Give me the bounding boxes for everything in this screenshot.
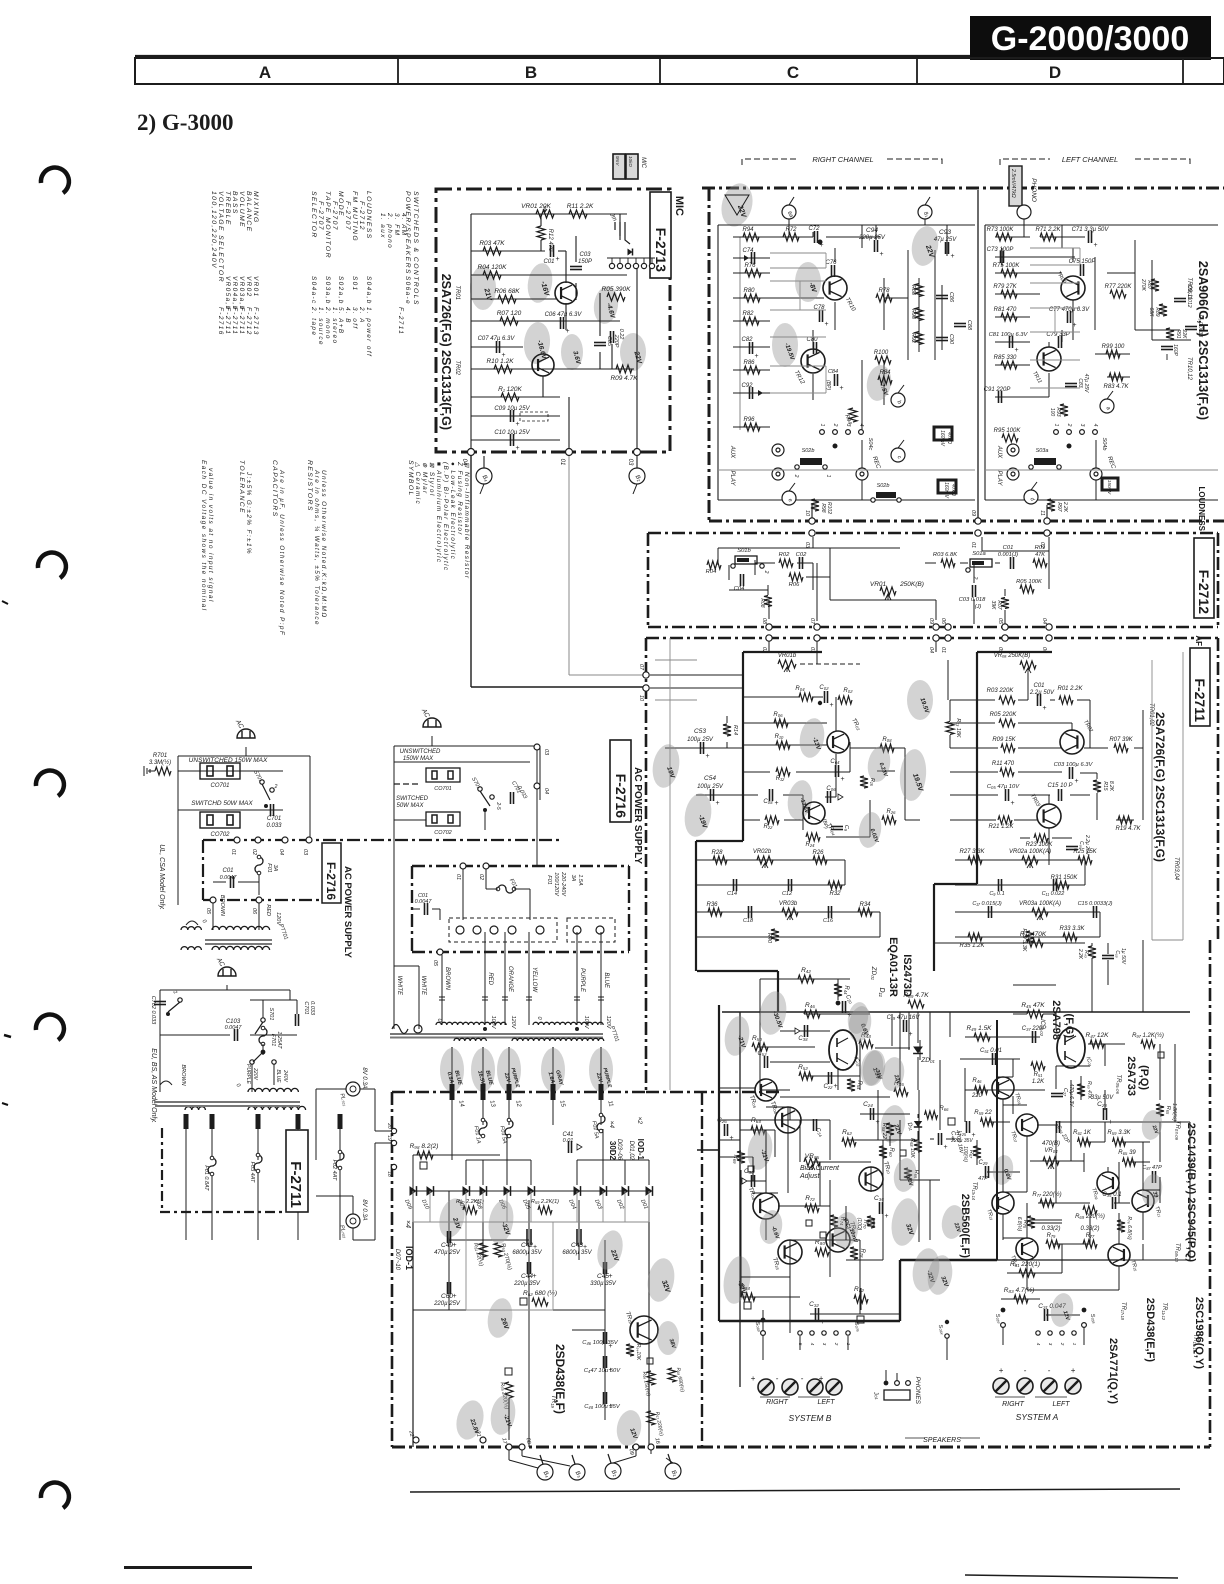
svg-text:0.001(J): 0.001(J) — [998, 552, 1018, 558]
capacitor C46 100u 35V — [603, 1332, 605, 1344]
svg-text:C₁₇ 0.015(J): C₁₇ 0.015(J) — [972, 901, 1002, 907]
capacitor C09 2.2u 25V vert — [1066, 846, 1078, 848]
capacitor C82 — [749, 342, 751, 354]
svg-text:CO702: CO702 — [434, 830, 451, 836]
svg-text:PHONO: PHONO — [1030, 178, 1037, 202]
resistor R07 120 — [500, 317, 518, 325]
TR02 emitter down — [542, 376, 544, 397]
svg-text:MIXING: MIXING — [252, 191, 259, 224]
resistor R97 R101 — [1047, 499, 1055, 511]
resistor R62 — [842, 1138, 856, 1146]
svg-text:R26: R26 — [812, 850, 824, 856]
svg-text:R₅₄: R₅₄ — [856, 1080, 862, 1090]
resistor R65b 39 — [1123, 1158, 1136, 1166]
resistor R07 39K loudness — [1001, 598, 1009, 609]
svg-text:R95 100K: R95 100K — [994, 428, 1022, 434]
capacitor C37 220P — [1032, 1031, 1034, 1043]
fuse F02 4AT EU — [336, 1152, 344, 1168]
switched row wire — [178, 809, 283, 811]
svg-text:2.5mV/47kΩ: 2.5mV/47kΩ — [1010, 168, 1016, 198]
svg-text:10kΩ: 10kΩ — [628, 156, 633, 167]
svg-text:02: 02 — [478, 874, 484, 880]
svg-text:+: + — [999, 1366, 1004, 1375]
svg-text:C92: C92 — [741, 383, 753, 389]
svg-text:19: 19 — [386, 1135, 392, 1141]
resistor R05 390K — [607, 293, 625, 301]
svg-text:R07 39K: R07 39K — [1109, 737, 1133, 743]
svg-text:01: 01 — [940, 647, 946, 653]
selector contacts left — [1054, 430, 1059, 435]
wires right margin — [1135, 329, 1180, 331]
capacitor C06b 0.22 — [610, 331, 612, 343]
transistor TR03 right — [992, 1077, 1014, 1099]
blotch 19.5V right — [907, 680, 933, 720]
blotch 19V af1 — [649, 742, 682, 790]
resistor R45 47K second — [1013, 984, 1056, 986]
svg-text:R96: R96 — [743, 417, 755, 423]
svg-text:S02b: S02b — [877, 483, 890, 489]
resistor R05 220K — [999, 719, 1015, 727]
resistor R81 470 — [1001, 313, 1017, 321]
svg-text:R₆₅: R₆₅ — [1165, 1106, 1171, 1115]
svg-text:C702 0.033: C702 0.033 — [150, 996, 156, 1025]
svg-text:150W MAX: 150W MAX — [403, 756, 434, 762]
svg-text:R09 15K: R09 15K — [992, 737, 1016, 743]
svg-text:220V: 220V — [252, 1067, 258, 1080]
svg-text:C₃₆: C₃₆ — [874, 1195, 884, 1202]
svg-text:TR01: TR01 — [454, 285, 460, 300]
resistor R28 — [713, 856, 727, 864]
bubble B4 — [476, 468, 492, 484]
svg-text:07: 07 — [638, 664, 644, 671]
svg-text:+: + — [1075, 778, 1079, 785]
svg-text:R03 6.8K: R03 6.8K — [933, 552, 958, 558]
svg-text:09: 09 — [627, 1448, 634, 1455]
svg-text:01: 01 — [559, 459, 565, 466]
blotch 32V mid — [888, 1196, 922, 1248]
svg-text:05: 05 — [997, 618, 1003, 625]
transistor TR02a — [827, 731, 849, 753]
resistor R76 — [745, 269, 761, 277]
svg-text:+: + — [880, 251, 884, 258]
svg-text:220: 220 — [971, 1093, 983, 1099]
svg-text:C12: C12 — [782, 891, 792, 897]
svg-text:-: - — [776, 1374, 779, 1383]
RCA jack right aux — [772, 444, 784, 456]
svg-text:2) G-3000: 2) G-3000 — [137, 110, 233, 135]
svg-text:2-5: 2-5 — [495, 801, 501, 809]
svg-text:R₉₇ 1.2K(½): R₉₇ 1.2K(½) — [1132, 1032, 1164, 1039]
svg-text:01: 01 — [230, 849, 236, 855]
capacitor C35 0.1 — [1112, 1197, 1114, 1209]
transistor TR01 — [555, 282, 577, 304]
wire C09 row — [471, 415, 560, 417]
svg-text:AC POWER SUPPLY: AC POWER SUPPLY — [342, 866, 353, 959]
resistor R78 — [876, 294, 892, 302]
svg-text:+: + — [706, 753, 710, 760]
transistor TR06 — [775, 1107, 801, 1133]
svg-text:R01: R01 — [1035, 545, 1046, 551]
svg-text:100µ 25V: 100µ 25V — [697, 784, 724, 790]
thick vertical right amp — [996, 1020, 998, 1260]
svg-text:C15 0.0033(J): C15 0.0033(J) — [1078, 901, 1113, 907]
svg-text:VR02b: VR02b — [753, 849, 772, 855]
dual transistor 2SA798 right — [1057, 1028, 1085, 1068]
F-2711 label box — [1190, 648, 1210, 726]
svg-text:09: 09 — [928, 618, 934, 624]
wire C07 row — [471, 346, 523, 348]
svg-text:150P: 150P — [578, 259, 592, 265]
outlet CO702 main — [426, 812, 460, 826]
svg-text:03: 03 — [302, 849, 308, 856]
svg-text:C₆₄: C₆₄ — [830, 759, 840, 765]
R86 wire — [780, 1096, 890, 1098]
svg-text:R31 150K: R31 150K — [1051, 875, 1079, 881]
resistor R49 1.5K — [974, 1033, 990, 1041]
capacitor C701 0.033 UL — [270, 804, 272, 816]
capacitor C17 0.015 — [988, 906, 990, 918]
svg-text:C73 100P: C73 100P — [987, 247, 1014, 253]
svg-text:R01 2.2K: R01 2.2K — [1057, 686, 1083, 692]
resistor R73 100K — [996, 233, 1012, 241]
blotch 1.3V amp — [858, 1048, 886, 1087]
tone rows right — [955, 859, 1085, 861]
fuse F03 5A — [505, 1120, 513, 1136]
svg-text:0.0047: 0.0047 — [225, 1025, 243, 1031]
svg-text:C88: C88 — [966, 320, 972, 331]
tone rows left — [697, 859, 845, 861]
svg-text:RED: RED — [487, 972, 493, 985]
resistor R10 1.2K — [494, 365, 512, 373]
svg-text:Are in µF, Unless Otherwise No: Are in µF, Unless Otherwise Noted P:pF — [278, 469, 285, 636]
terminals into rect block — [450, 1084, 455, 1100]
svg-text:C₄₆ 100µ 35V: C₄₆ 100µ 35V — [582, 1340, 619, 1346]
resistor R27 3.3K — [968, 856, 982, 864]
amp block bottom border — [700, 1446, 1210, 1449]
svg-text:R₈₂: R₈₂ — [854, 1286, 864, 1293]
transistor TR10 — [859, 1167, 883, 1191]
svg-text:SPEAKERS: SPEAKERS — [923, 1437, 961, 1444]
resistor R55 220(1/2) — [505, 1382, 513, 1398]
resistor R68 mid — [914, 1140, 922, 1152]
svg-text:R28: R28 — [711, 850, 723, 856]
resistor R63 47K vertical — [1077, 1084, 1085, 1096]
svg-text:TOLERANCE: TOLERANCE — [238, 460, 245, 514]
svg-text:MIC: MIC — [640, 157, 646, 169]
svg-text:1. source: 1. source — [317, 307, 324, 346]
svg-text:SWITCHD 50W MAX: SWITCHD 50W MAX — [191, 800, 253, 807]
svg-text:R₅₁: R₅₁ — [1034, 1072, 1043, 1078]
resistor R06a — [774, 719, 788, 727]
RIGHT CHANNEL bracket — [742, 159, 942, 165]
svg-text:3. FM: 3. FM — [393, 213, 400, 236]
capacitor C44 220u 35V — [527, 1262, 529, 1274]
blotch -31V — [745, 1128, 776, 1172]
svg-text:SYSTEM A: SYSTEM A — [1016, 1412, 1059, 1422]
transistor TR18 — [778, 1240, 802, 1264]
svg-text:0.33(2): 0.33(2) — [1041, 1226, 1060, 1232]
transistor TR01a — [1060, 730, 1084, 754]
svg-text:F-2711: F-2711 — [1192, 678, 1208, 722]
svg-text:+: + — [819, 1374, 824, 1383]
svg-text:Are in ohms, ¼ Watts, ±5% Tole: Are in ohms, ¼ Watts, ±5% Tolerance — [313, 469, 320, 626]
svg-text:1.2K: 1.2K — [1032, 1079, 1045, 1085]
svg-text:R75 100K: R75 100K — [993, 263, 1021, 269]
resistor R69b 220 — [1083, 1206, 1097, 1214]
resistor R02a — [838, 696, 852, 704]
svg-text:F-2707: F-2707 — [317, 201, 324, 231]
transistor TR11b — [1132, 1190, 1154, 1212]
blotch -21V amp — [722, 1014, 753, 1058]
AC plug main — [423, 718, 441, 727]
capacitor C47 10u 50V — [603, 1356, 605, 1368]
svg-text:C03 100µ 6.3V: C03 100µ 6.3V — [1054, 762, 1094, 768]
svg-text:R14: R14 — [732, 725, 738, 735]
svg-text:C03 0.018: C03 0.018 — [959, 597, 987, 603]
wire R04 row — [471, 274, 627, 276]
svg-text:C43: C43 — [571, 1242, 583, 1249]
loudness wires — [718, 547, 900, 549]
svg-text:C₂₉: C₂₉ — [979, 1160, 989, 1166]
svg-text:R₂₄: R₂₄ — [805, 842, 815, 848]
blotch 23V rect — [435, 1196, 469, 1241]
capacitor C81 100u 6.3V — [1009, 336, 1011, 348]
resistor R04 120K — [483, 271, 501, 279]
svg-text:R80: R80 — [743, 288, 755, 294]
svg-text:WHITE: WHITE — [420, 976, 426, 996]
input bubble 8 — [918, 205, 932, 219]
resistor R83 4.7K — [1109, 373, 1123, 381]
svg-text:R₁ 120K: R₁ 120K — [498, 386, 522, 393]
capacitor C23 33u 50V — [1103, 1108, 1105, 1120]
resistor R98 R102 — [811, 499, 819, 511]
svg-text:R₅₈ 22: R₅₈ 22 — [881, 1123, 887, 1139]
tap blotches — [440, 1048, 464, 1092]
svg-text:-: - — [801, 1374, 804, 1383]
resistor R65 1.8K — [1156, 1104, 1164, 1116]
resistor R12 470 — [537, 226, 545, 240]
right channel bottom wire — [718, 499, 975, 501]
capacitor C10a — [831, 826, 843, 828]
svg-text:C91 220P: C91 220P — [984, 387, 1011, 393]
svg-text:R₂₂: R₂₂ — [764, 824, 774, 830]
svg-text:2SA726(F,G) 2SC1313(F,G): 2SA726(F,G) 2SC1313(F,G) — [1153, 712, 1167, 862]
capacitor C54 100u 25V — [710, 789, 712, 801]
capacitor C06 47u 6.3V — [560, 317, 562, 329]
capacitor C19 47u 16V — [903, 1020, 905, 1032]
svg-text:J:±5% G:±2% F:±1%: J:±5% G:±2% F:±1% — [245, 471, 252, 555]
svg-text:47K: 47K — [1035, 552, 1045, 558]
switch S01a — [970, 559, 992, 567]
switch S701 UL — [260, 780, 264, 784]
resistor R52 — [799, 1072, 813, 1080]
svg-text:C75 150P: C75 150P — [1069, 259, 1096, 265]
blotch 0.6V right — [845, 1001, 870, 1036]
EU bottom dash border — [160, 1211, 286, 1213]
svg-text:C₅₂: C₅₂ — [757, 1051, 767, 1057]
svg-text:100/120V: 100/120V — [553, 872, 559, 897]
svg-text:10: 10 — [638, 695, 644, 702]
svg-text:02: 02 — [251, 849, 257, 855]
fuse F03 4AT EU — [254, 1155, 262, 1171]
svg-text:3A: 3A — [272, 865, 278, 872]
svg-text:R10 1.2K: R10 1.2K — [486, 358, 514, 365]
capacitor C75 150P — [1080, 264, 1082, 276]
capacitor C83 47u 25V — [1065, 383, 1077, 385]
diode D10 — [427, 1186, 434, 1196]
svg-text:TR10,12: TR10,12 — [1186, 357, 1192, 381]
svg-text:R79 27K: R79 27K — [993, 284, 1017, 290]
svg-text:S01: S01 — [351, 276, 358, 292]
svg-text:R₅₄10K: R₅₄10K — [635, 1344, 641, 1361]
svg-text:VR04a,b: VR04a,b — [231, 276, 238, 311]
svg-text:G-2000/3000: G-2000/3000 — [991, 20, 1190, 58]
RCA jack left play — [1007, 468, 1019, 480]
transformer PT701 main secondary — [454, 1038, 486, 1041]
resistor R79 0.33 — [1046, 1240, 1060, 1248]
capacitor C53 100u 25V — [700, 742, 702, 754]
fuse F01 1A — [479, 1120, 487, 1136]
column resistors R87 R89 R91 — [1151, 279, 1159, 291]
resistor R02 loudness — [779, 559, 793, 567]
svg-text:R₆₁ 1K: R₆₁ 1K — [1073, 1130, 1092, 1136]
svg-text:Unless Otherwise Noted.K:kΩ,M:: Unless Otherwise Noted.K:kΩ,M:MΩ — [320, 470, 327, 619]
svg-text:-: - — [1024, 1366, 1027, 1375]
svg-text:R27 3.3K: R27 3.3K — [959, 849, 985, 855]
capacitor C84 — [834, 374, 836, 386]
bubble b — [891, 393, 905, 407]
wire R03 row — [471, 250, 545, 252]
svg-text:×4: ×4 — [404, 1220, 411, 1228]
fuse F01 0.8AT EU — [208, 1158, 216, 1174]
resistor R58 22 mid — [886, 1123, 894, 1135]
svg-text:+: + — [821, 1319, 825, 1326]
diode row bus — [413, 1190, 649, 1192]
gray bus under diodes — [413, 1221, 649, 1223]
capacitor C92 — [749, 387, 751, 399]
capacitor C33 22P — [1056, 1121, 1058, 1133]
svg-text:+: + — [556, 256, 560, 263]
capacitor C02 loudness — [799, 557, 801, 569]
bubble B2 — [629, 468, 645, 484]
capacitor C40 mid — [938, 1133, 940, 1145]
resistor R27 1.2K — [998, 816, 1012, 824]
wire 01 to AF 07 — [569, 674, 646, 676]
svg-text:C₁₁ 0.022: C₁₁ 0.022 — [1042, 891, 1065, 897]
svg-text:R71 2.2K: R71 2.2K — [1035, 227, 1061, 233]
svg-text:R₁₀: R₁₀ — [775, 734, 784, 740]
svg-text:-: - — [1048, 1366, 1051, 1375]
thick bus AF — [742, 652, 744, 841]
resistor R67 100 vertical — [973, 1146, 981, 1158]
zener ZD01 — [913, 1047, 923, 1054]
svg-text:22: 22 — [407, 1429, 414, 1437]
transistor TR02 — [532, 354, 554, 376]
terminals top of F-2712 — [809, 530, 815, 536]
capacitor C11 0.022 — [1053, 879, 1055, 891]
svg-text:05: 05 — [205, 908, 211, 915]
capacitor C103 0.0047 — [234, 1029, 236, 1041]
svg-text:C701: C701 — [267, 816, 281, 822]
capacitor C71 3.3u 50V — [1088, 231, 1090, 243]
diode feed wires — [451, 1125, 453, 1160]
resistor R82 — [743, 317, 759, 325]
svg-text:+: + — [533, 1273, 537, 1280]
lamp wires — [316, 1088, 346, 1090]
resistor R97 1.2K — [1141, 1040, 1155, 1048]
blotch 22V right mid — [878, 1103, 908, 1145]
resistor R83 4.7 — [1014, 1295, 1028, 1303]
transistor TR13b — [992, 1192, 1014, 1214]
svg-text:LEFT: LEFT — [1052, 1401, 1070, 1408]
resistor R31 150K — [1055, 881, 1069, 889]
right half wires — [949, 1012, 951, 1037]
resistor R06 loudness — [789, 573, 803, 581]
terminals bottom of F-2712 — [766, 624, 772, 630]
switch S701 EU — [178, 998, 182, 1002]
resistor R08 loudness — [764, 596, 772, 607]
svg-text:04: 04 — [278, 849, 284, 855]
svg-text:R84: R84 — [879, 370, 891, 376]
left bus wire — [470, 214, 472, 452]
svg-text:LOUDNESS: LOUDNESS — [365, 191, 372, 240]
svg-text:+: + — [516, 421, 520, 428]
svg-text:2: 2 — [832, 423, 838, 427]
capacitor C64 — [835, 765, 837, 777]
transistor TR04a — [803, 802, 825, 824]
blotch 0.02V — [856, 810, 884, 849]
resistor R34 — [858, 908, 872, 916]
svg-text:F-2711: F-2711 — [397, 307, 404, 335]
svg-text:C74: C74 — [742, 248, 754, 254]
svg-text:R₁₃ 18K: R₁₃ 18K — [955, 718, 961, 738]
svg-text:VR03a 100K(A): VR03a 100K(A) — [1019, 901, 1061, 907]
title box G-2000/3000 — [970, 16, 1211, 60]
wire R06 row — [471, 298, 556, 300]
svg-text:R₂₆: R₂₆ — [886, 809, 896, 815]
pot VR03a 100K(A) — [1032, 908, 1048, 916]
rectifier block border — [392, 1091, 646, 1094]
svg-text:150mV: 150mV — [1107, 480, 1112, 495]
capacitor C91 220P — [998, 391, 1000, 403]
svg-text:⊠ Styrol: ⊠ Styrol — [428, 462, 435, 497]
svg-text:+: + — [951, 253, 955, 260]
svg-text:R06: R06 — [789, 582, 800, 588]
AC plug EU — [218, 967, 236, 976]
svg-text:9mV: 9mV — [615, 156, 620, 166]
pot VR02b — [757, 856, 773, 864]
amp right mesh horizontals — [1003, 1104, 1027, 1106]
capacitor C24 mid — [870, 1108, 872, 1120]
svg-text:11: 11 — [1039, 510, 1045, 516]
resistor R26b — [813, 856, 827, 864]
svg-text:+: + — [730, 1135, 734, 1142]
capacitor C01 — [550, 245, 552, 257]
svg-text:R₆₆: R₆₆ — [939, 1106, 949, 1112]
svg-text:4. AM: 4. AM — [400, 213, 407, 236]
svg-text:BROWN: BROWN — [219, 895, 225, 916]
tap terminals EU — [184, 1114, 189, 1129]
svg-text:240V: 240V — [282, 1069, 288, 1082]
amp driver wires left — [760, 978, 850, 980]
svg-text:R88: R88 — [910, 285, 916, 296]
svg-text:R701: R701 — [153, 753, 167, 759]
wire R10 row — [471, 368, 634, 370]
svg-text:+: + — [1073, 322, 1077, 329]
capacitor C90 — [936, 337, 948, 339]
terminal 01 — [566, 449, 573, 456]
svg-text:04: 04 — [461, 459, 467, 466]
